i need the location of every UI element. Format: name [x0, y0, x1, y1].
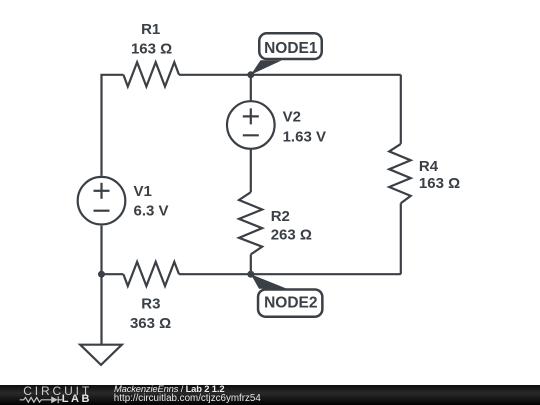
- svg-text:R3: R3: [141, 296, 160, 313]
- svg-text:263 Ω: 263 Ω: [271, 227, 312, 244]
- svg-text:1.63 V: 1.63 V: [283, 128, 326, 145]
- svg-text:NODE1: NODE1: [264, 40, 318, 57]
- svg-text:6.3 V: 6.3 V: [134, 203, 169, 220]
- svg-text:NODE2: NODE2: [264, 294, 317, 311]
- svg-text:163 Ω: 163 Ω: [419, 175, 460, 192]
- svg-text:V2: V2: [283, 109, 301, 126]
- svg-text:R1: R1: [141, 21, 160, 38]
- svg-text:V1: V1: [134, 183, 152, 200]
- svg-text:163 Ω: 163 Ω: [131, 41, 172, 58]
- svg-text:363 Ω: 363 Ω: [130, 315, 171, 332]
- svg-text:R4: R4: [419, 158, 439, 175]
- svg-text:R2: R2: [271, 208, 290, 225]
